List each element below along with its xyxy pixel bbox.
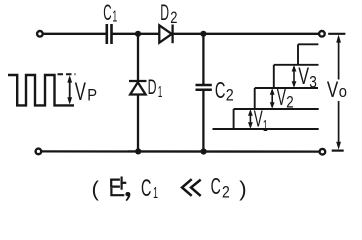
V2 step measure arrow <box>270 88 275 108</box>
label V2 <box>277 84 294 111</box>
node: junction dot C2/bottom rail <box>201 148 207 154</box>
label Vp <box>75 78 97 106</box>
label Vo <box>327 77 347 102</box>
svg-text:): ) <box>239 178 246 201</box>
staircase riser 4 <box>297 44 299 65</box>
capacitor C2 <box>196 85 212 90</box>
wire: C1 to D2 anode <box>112 33 160 35</box>
output terminal (top right open circle) <box>319 31 325 37</box>
svg-text:V: V <box>277 84 287 110</box>
capacitor C1 <box>107 24 112 44</box>
svg-text:V: V <box>327 77 339 102</box>
wire: D1 anode down to bottom rail <box>137 95 139 152</box>
Vo measure top tick <box>328 33 345 35</box>
svg-text:3: 3 <box>309 73 317 92</box>
staircase baseline <box>213 128 319 130</box>
svg-text:2: 2 <box>226 86 234 105</box>
caption much-less-than symbol <box>182 179 201 196</box>
wire: bottom rail <box>42 150 320 153</box>
node: junction dot C1/D1/D2 <box>135 31 141 37</box>
svg-text:D: D <box>160 0 169 25</box>
staircase level 2 line <box>255 87 318 89</box>
V3 step measure arrow <box>292 65 297 88</box>
label V3 <box>298 63 317 92</box>
svg-text:V: V <box>254 105 263 131</box>
svg-text:C: C <box>211 173 221 199</box>
diode D2 (series, pointing right) <box>159 25 172 44</box>
wire: input terminal to C1 left plate <box>43 33 105 35</box>
staircase level 3 line <box>274 64 319 66</box>
output terminal (bottom right open circle) <box>320 149 326 155</box>
ground-side terminal (bottom left open circle) <box>36 149 42 155</box>
caption C1 <box>141 175 158 202</box>
label D1 <box>148 76 163 101</box>
input terminal (top left open circle) <box>37 31 43 37</box>
wire: D2 cathode to output terminal <box>173 33 320 35</box>
svg-text:1: 1 <box>112 9 117 26</box>
svg-text:V: V <box>75 78 86 106</box>
svg-text:2: 2 <box>222 183 230 202</box>
wire: top junction down to C2 top plate <box>202 34 204 85</box>
svg-text:1: 1 <box>263 118 268 135</box>
svg-text:C: C <box>141 175 151 202</box>
node: junction dot D1/bottom rail <box>135 148 141 154</box>
svg-text:1: 1 <box>153 185 158 202</box>
svg-text:C: C <box>103 0 111 25</box>
input square wave symbol <box>8 75 74 105</box>
label C1 <box>103 0 117 26</box>
label V1 <box>254 105 268 134</box>
Vp measure top tick (dashed) <box>58 73 76 75</box>
diode D1 (shunt, cathode up) <box>129 81 147 95</box>
svg-text:P: P <box>87 85 97 104</box>
Vo measure arrow <box>336 35 341 150</box>
svg-text:D: D <box>148 76 157 99</box>
staircase riser 1 <box>233 109 235 129</box>
staircase riser 3 <box>273 65 275 88</box>
Vo measure bottom tick <box>332 150 344 152</box>
wire: top junction down to D1 cathode <box>137 34 139 81</box>
caption hangul dan (drawn strokes) <box>111 178 125 196</box>
staircase top level line <box>298 43 318 45</box>
Vp measure arrow <box>67 75 72 104</box>
svg-text:1: 1 <box>158 84 163 101</box>
svg-text:2: 2 <box>286 93 293 111</box>
svg-text:o: o <box>339 82 347 101</box>
svg-text:V: V <box>298 63 309 90</box>
staircase riser 2 <box>254 88 256 109</box>
V1 step measure arrow <box>248 109 253 128</box>
svg-text:2: 2 <box>170 9 177 27</box>
node: junction dot D2/C2 <box>200 31 206 37</box>
svg-text:(: ( <box>92 178 99 201</box>
wire: C2 bottom plate down to bottom rail <box>202 90 204 152</box>
caption comma <box>125 192 130 201</box>
staircase level 1 line <box>234 108 319 110</box>
caption C2 <box>211 173 230 202</box>
svg-text:C: C <box>215 77 226 103</box>
label D2 <box>160 0 177 27</box>
label C2 <box>215 77 234 105</box>
